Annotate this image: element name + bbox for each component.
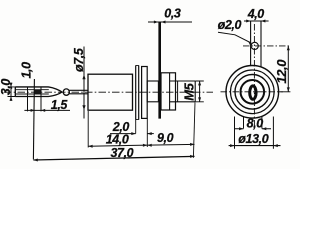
extension line for 37,0 (long, also 1,0 leader) xyxy=(33,79,34,159)
stud boss between flange and tab xyxy=(147,81,158,102)
flexible wire lead xyxy=(69,90,88,94)
dim Ø7,5 line with arrows xyxy=(83,47,85,119)
dim M5 line with arrows xyxy=(199,81,201,102)
M5 extension lines xyxy=(195,81,204,102)
svg-text:1,5: 1,5 xyxy=(51,98,69,112)
hub circle xyxy=(241,80,265,104)
dim 3,0 extension lines xyxy=(8,87,16,97)
dim 12,0 extension line xyxy=(279,91,291,93)
dim 2,0 line with outside arrows xyxy=(110,133,136,135)
hex nut facet line xyxy=(169,73,171,110)
tab hole xyxy=(251,42,258,49)
dim Ø2,0 leader xyxy=(218,32,251,43)
svg-text:3,0: 3,0 xyxy=(0,79,13,96)
threaded stud M5 xyxy=(170,81,196,102)
svg-text:14,0: 14,0 xyxy=(106,133,129,147)
lug inner lines (wire inside) xyxy=(16,90,49,94)
svg-text:M5: M5 xyxy=(182,82,197,100)
dim Ø13,0 line xyxy=(229,145,281,147)
dim 2,0 / 14,0 extension line (flange face) xyxy=(146,118,148,147)
dim 4,0 line (tab top) xyxy=(244,20,269,22)
washer disc lines xyxy=(135,65,137,119)
svg-text:4,0: 4,0 xyxy=(247,7,265,21)
outer circle Ø13 xyxy=(226,66,279,119)
lug terminal outline xyxy=(15,87,48,97)
dim 1,5 line xyxy=(24,109,70,111)
dim 0,3 line with converging arrows xyxy=(148,21,192,23)
dim Ø13,0 extension lines xyxy=(235,117,274,149)
dim 2,0 extension line (washer) xyxy=(135,120,137,134)
screw slot xyxy=(250,86,256,99)
svg-text:8,0: 8,0 xyxy=(247,116,264,130)
svg-text:0,3: 0,3 xyxy=(164,7,181,21)
svg-text:ø13,0: ø13,0 xyxy=(238,132,268,146)
svg-text:1,0: 1,0 xyxy=(20,62,34,79)
circle 3 xyxy=(235,75,270,110)
extension line body face (14,0 left) xyxy=(87,111,89,148)
lug taper to tip xyxy=(49,87,63,97)
horizontal centerline xyxy=(221,91,284,93)
dim 37,0 line xyxy=(33,156,194,160)
vertical centerline xyxy=(253,24,255,128)
dim 12,0 line with arrows xyxy=(287,46,289,92)
thread runout line xyxy=(177,81,179,102)
dim 14,0 / 9,0 line xyxy=(88,144,194,146)
svg-text:ø2,0: ø2,0 xyxy=(218,18,242,32)
extension line stud end (9,0/37,0) xyxy=(193,103,195,158)
body (case cylinder) xyxy=(88,74,133,110)
hex nut xyxy=(161,73,176,110)
dim 8,0 line with outside arrows xyxy=(235,128,272,130)
dim 3,0 line with arrows xyxy=(10,83,12,102)
wire bead xyxy=(63,89,69,95)
mounting flange block xyxy=(142,67,148,119)
svg-text:ø7,5: ø7,5 xyxy=(72,47,86,72)
svg-text:9,0: 9,0 xyxy=(157,131,174,145)
svg-text:12,0: 12,0 xyxy=(274,59,289,84)
circle 2 xyxy=(231,70,275,114)
solder tab front xyxy=(251,21,261,67)
crimp block xyxy=(35,90,41,95)
crimp vertical marks xyxy=(27,87,29,112)
hole centerline xyxy=(243,45,290,47)
svg-text:37,0: 37,0 xyxy=(111,146,134,160)
dim 8,0 extension lines xyxy=(244,117,262,129)
solder tab edge-on (0,3 thick) xyxy=(158,22,161,119)
centerline (side view axis) xyxy=(4,91,213,93)
